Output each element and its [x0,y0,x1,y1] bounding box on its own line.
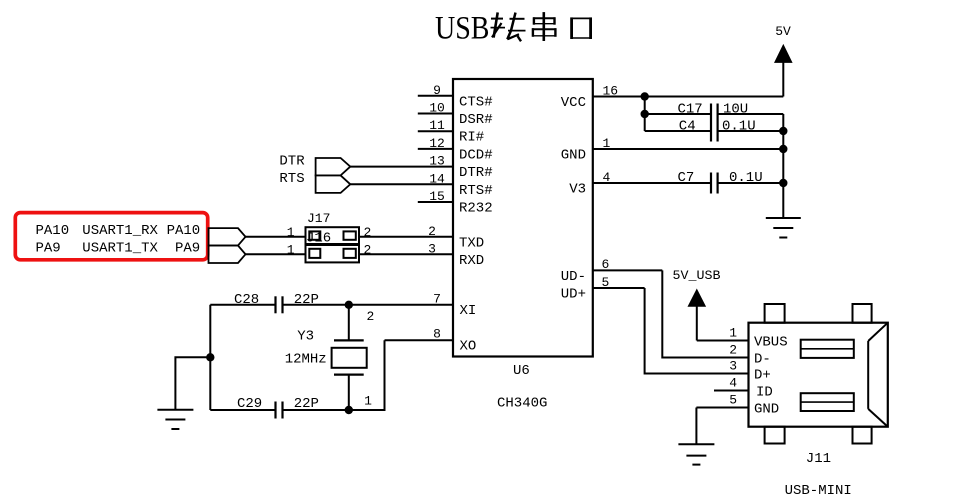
svg-text:1: 1 [287,225,295,240]
svg-text:5V: 5V [775,24,791,39]
pin 1 GND [561,136,784,164]
pin 4 V3 [569,170,783,198]
ground symbol USB [678,444,714,464]
wire VCC tap vertical [644,97,646,132]
svg-text:RXD: RXD [459,253,484,269]
svg-text:3: 3 [428,241,436,256]
net flag PA9 pentagon [209,246,246,264]
svg-text:C4: C4 [679,119,696,135]
svg-text:2: 2 [364,225,372,240]
svg-text:USB: USB [435,10,490,46]
pin 2 TXD [359,224,484,252]
svg-text:Y3: Y3 [297,329,314,345]
svg-text:V3: V3 [569,182,586,198]
svg-text:0.1U: 0.1U [722,119,756,135]
net flag PA10 pentagon [209,228,246,245]
svg-text:4: 4 [729,376,737,391]
svg-text:J17: J17 [307,211,330,226]
crystal Y3 12MHz [285,305,375,410]
svg-text:USART1_TX: USART1_TX [82,241,158,257]
connector J11 main box [749,323,888,427]
svg-text:U6: U6 [513,363,530,379]
svg-text:DTR#: DTR# [459,165,493,181]
J11 mounting tab top-right [853,304,872,323]
connector J17 top jumper box [306,227,360,244]
svg-text:3: 3 [729,359,737,374]
wire UD- to USB D- [662,270,748,357]
svg-text:J16: J16 [306,231,331,247]
capacitor C29 22P [210,396,348,419]
svg-text:CH340G: CH340G [497,396,547,412]
svg-text:5: 5 [729,393,737,408]
pin 1 VBUS [729,326,787,351]
capacitor C17 10U [645,102,784,142]
svg-text:PA9: PA9 [175,241,200,257]
svg-text:9: 9 [433,83,441,98]
wire GND rail vertical right [782,114,784,218]
pin 12 DCD# [418,136,493,164]
svg-text:C29: C29 [237,396,262,412]
wire XO riser [349,340,385,410]
pin 15 R232 [418,189,493,217]
node left vertical junction dot [206,353,214,361]
pin 10 DSR# [418,101,493,129]
svg-text:14: 14 [429,171,445,186]
svg-text:1: 1 [287,242,295,257]
wire PA9 to J17 [246,253,306,255]
pad J17 bottom-left [309,249,320,258]
svg-text:PA9: PA9 [36,241,61,257]
svg-text:C7: C7 [678,170,695,186]
svg-text:PA10: PA10 [167,223,201,239]
node VCC junction dot 2 [641,110,649,118]
svg-text:1: 1 [603,136,611,151]
pin 9 CTS# [418,83,493,111]
capacitor C7 0.1U [678,170,763,194]
svg-text:D+: D+ [754,367,771,383]
svg-text:12MHz: 12MHz [285,352,327,368]
svg-text:USART1_RX: USART1_RX [82,223,158,239]
pin 13 DTR# [350,154,492,182]
svg-text:USB-MINI: USB-MINI [785,483,852,499]
svg-text:RTS: RTS [279,171,304,187]
svg-text:11: 11 [429,118,445,133]
J11 mounting tab bottom-left [765,427,785,444]
svg-text:2: 2 [366,309,374,324]
wire UD+ to USB D+ [645,288,749,374]
J11 mounting tab bottom-right [853,427,872,444]
svg-text:RI#: RI# [459,130,484,146]
pin 14 RTS# [350,171,492,199]
pad J17 top-left [309,231,320,239]
wire ground tap left [175,357,210,409]
wire 5V_USB to VBUS [697,340,749,342]
svg-text:CTS#: CTS# [459,94,493,110]
node dot C4-rail [779,127,787,135]
ground symbol right [766,218,801,238]
capacitor C28 22P [210,292,319,314]
svg-text:PA10: PA10 [36,223,70,239]
node crystal bottom junction dot [345,406,353,414]
J11 contact slot lower [801,393,854,411]
svg-text:15: 15 [429,189,445,204]
pin 3 D+ [729,359,771,384]
power symbol 5V_USB [673,268,721,341]
node XI junction dot [345,301,353,309]
svg-text:VBUS: VBUS [754,334,788,350]
svg-text:TXD: TXD [459,235,484,251]
text PA9 USART1_TX PA9 [36,241,201,257]
svg-text:0.1U: 0.1U [729,170,763,186]
svg-text:2: 2 [729,343,737,358]
pin 3 RXD [359,241,484,268]
svg-text:22P: 22P [294,292,319,308]
svg-text:XI: XI [460,303,477,319]
svg-text:D-: D- [754,351,771,367]
svg-text:UD-: UD- [561,269,586,285]
power symbol 5V [775,24,792,97]
svg-text:C28: C28 [234,292,259,308]
J11 bevel edge [868,323,888,427]
net label RTS [279,171,350,193]
ground symbol left [157,410,193,429]
pin 2 D- [729,343,771,368]
title USB转串口 [435,10,591,46]
op-amp U6 IC box CH340G [453,79,593,357]
pad J17 top-right [344,231,356,239]
svg-text:5V_USB: 5V_USB [673,268,721,283]
svg-text:RTS#: RTS# [459,183,493,199]
svg-text:1: 1 [729,326,737,341]
node VCC junction dot 1 [641,92,649,100]
svg-text:GND: GND [754,401,779,417]
svg-text:GND: GND [561,148,586,164]
svg-text:10: 10 [429,101,445,116]
svg-text:XO: XO [460,338,477,354]
J11 mounting tab top-left [765,304,785,323]
pin 4 ID [714,376,773,401]
pin 5 GND [696,393,779,418]
svg-text:16: 16 [603,83,619,98]
pin 7 XI [283,291,477,319]
svg-text:DCD#: DCD# [459,147,493,163]
net label DTR [279,154,350,176]
svg-text:VCC: VCC [561,95,586,111]
svg-text:13: 13 [429,154,445,169]
svg-text:UD+: UD+ [561,287,586,303]
wire crystal cap left vertical [209,305,211,410]
svg-text:5: 5 [602,275,610,290]
svg-text:ID: ID [756,384,773,400]
pin 5 UD+ [561,275,645,303]
pin 8 XO [385,327,477,355]
svg-text:2: 2 [428,224,436,239]
pin 11 RI# [418,118,484,146]
svg-text:10U: 10U [723,102,748,118]
capacitor C4 0.1U [645,119,784,135]
svg-text:7: 7 [433,291,441,306]
svg-text:DTR: DTR [279,154,305,170]
connector J17 bottom jumper box [306,245,360,262]
svg-text:1: 1 [364,394,372,409]
svg-text:12: 12 [429,136,445,151]
node dot GND-rail [779,145,787,153]
svg-text:22P: 22P [294,396,319,412]
J11 contact slot upper [801,340,854,358]
svg-text:DSR#: DSR# [459,112,493,128]
red highlight box PA10/PA9 [15,213,207,260]
wire PA10 to J17 [246,236,306,238]
svg-text:6: 6 [602,257,610,272]
svg-text:C17: C17 [678,102,703,118]
svg-text:8: 8 [433,327,441,342]
pad J17 bottom-right [344,249,356,258]
wire USB GND drop [695,408,697,445]
pin 6 UD- [561,257,663,285]
svg-text:2: 2 [364,242,372,257]
node dot C7-rail [779,179,787,187]
pin 16 VCC [561,83,784,111]
svg-text:R232: R232 [459,201,493,217]
text PA10 USART1_RX PA10 [36,223,201,239]
svg-text:J11: J11 [806,451,831,467]
svg-text:4: 4 [603,170,611,185]
